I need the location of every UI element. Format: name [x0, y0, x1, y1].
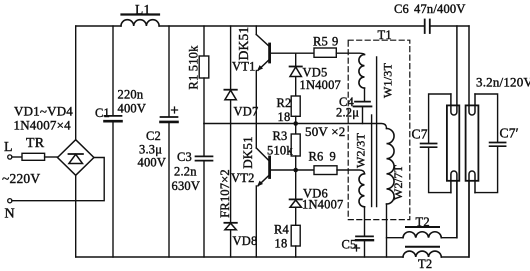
- wire midpoint rail: [204, 124, 387, 129]
- resistor R6: [314, 166, 365, 175]
- svg-text:1N4007: 1N4007: [300, 78, 341, 92]
- terminal N: [8, 199, 12, 203]
- svg-text:C1: C1: [95, 106, 110, 120]
- svg-text:9: 9: [332, 35, 338, 49]
- svg-text:R3: R3: [273, 129, 288, 143]
- wire top rail middle segment: [159, 25, 424, 27]
- svg-text:2.2n: 2.2n: [174, 165, 197, 179]
- filament lamp2 bottom: [469, 171, 475, 257]
- wire N to bridge: [12, 158, 104, 201]
- wire left rail lower: [75, 176, 77, 257]
- svg-text:18: 18: [278, 110, 291, 124]
- svg-text:3.2n/120V: 3.2n/120V: [476, 75, 530, 90]
- capacitor C1: [105, 26, 122, 257]
- svg-text:3.3μ: 3.3μ: [139, 143, 162, 157]
- svg-text:TR: TR: [26, 136, 45, 151]
- diode VD5: [290, 53, 302, 96]
- svg-text:R4: R4: [274, 223, 290, 237]
- transistor VT1: [256, 26, 314, 124]
- resistor R5: [314, 48, 365, 57]
- svg-text:C3: C3: [177, 150, 192, 164]
- junction midpoint-R2R3: [293, 121, 298, 126]
- wire T2 upper to lamp1: [441, 181, 457, 238]
- svg-text:N: N: [5, 207, 15, 222]
- svg-text:400V: 400V: [118, 102, 147, 116]
- resistor R2: [291, 96, 300, 124]
- resistor R1: [199, 26, 209, 124]
- wire W2/7T to T2 upper: [387, 237, 404, 239]
- winding W2/3T: [359, 174, 365, 207]
- svg-text:T1: T1: [378, 28, 392, 42]
- inductor L1: [121, 15, 159, 27]
- svg-text:L: L: [4, 140, 13, 155]
- svg-text:47n/400V: 47n/400V: [414, 2, 466, 16]
- svg-text:1N4007×4: 1N4007×4: [14, 118, 72, 133]
- lamp tube 1: [447, 105, 459, 180]
- wire TR to bridge: [45, 156, 58, 158]
- svg-text:9: 9: [330, 150, 336, 164]
- svg-text:L1: L1: [135, 2, 150, 17]
- capacitor C7: [421, 94, 451, 193]
- svg-text:T2: T2: [418, 257, 432, 271]
- svg-text:W1/3T: W1/3T: [381, 63, 395, 98]
- junction base-VT2: [293, 168, 298, 173]
- svg-text:R5: R5: [313, 35, 328, 49]
- svg-text:18: 18: [275, 237, 288, 251]
- diode VD8: [224, 124, 236, 258]
- svg-text:VT2: VT2: [231, 171, 255, 185]
- wire L to TR: [12, 156, 22, 158]
- svg-text:1N4007: 1N4007: [302, 198, 343, 212]
- winding W1/3T: [359, 55, 365, 102]
- winding W2/7T: [387, 129, 395, 258]
- wire top rail right segment: [430, 25, 469, 27]
- terminal L: [8, 155, 12, 159]
- wire top rail left segment: [76, 25, 121, 27]
- svg-text:VD7: VD7: [234, 105, 259, 119]
- svg-text:2.2μ: 2.2μ: [336, 106, 359, 120]
- wire left rail upper: [75, 26, 77, 140]
- svg-text:C2: C2: [146, 129, 161, 143]
- filament lamp1 top: [451, 26, 457, 115]
- wire bottom rail: [76, 256, 403, 258]
- transistor VT2: [256, 124, 314, 258]
- svg-text:VD1~VD4: VD1~VD4: [14, 104, 73, 119]
- resistor R3: [291, 124, 300, 171]
- svg-text:VT1: VT1: [232, 60, 256, 74]
- svg-text:220n: 220n: [118, 88, 144, 102]
- svg-text:630V: 630V: [172, 179, 201, 193]
- diode VD7: [224, 26, 236, 124]
- svg-text:C7: C7: [412, 127, 428, 142]
- svg-text:~220V: ~220V: [2, 171, 40, 186]
- transformer T2 lower: [403, 247, 441, 257]
- svg-text:R2: R2: [277, 96, 292, 110]
- svg-text:400V: 400V: [138, 156, 167, 170]
- capacitor C4: [354, 102, 372, 124]
- lamp tube 2: [466, 105, 479, 180]
- transformer T1 core: [372, 57, 377, 207]
- svg-text:C5: C5: [342, 238, 357, 252]
- svg-text:C6: C6: [394, 2, 409, 16]
- svg-text:510k: 510k: [267, 144, 293, 158]
- capacitor C3: [196, 124, 213, 258]
- svg-text:T2: T2: [416, 215, 430, 229]
- svg-text:R6: R6: [309, 150, 324, 164]
- svg-text:DK51: DK51: [240, 136, 255, 169]
- diode VD6: [290, 170, 302, 225]
- transformer T1 box: [348, 40, 410, 219]
- capacitor C2: [161, 26, 178, 257]
- bridge rectifier VD1-VD4: [58, 140, 94, 176]
- svg-text:W2/7T: W2/7T: [391, 165, 405, 200]
- svg-text:C7′: C7′: [500, 126, 519, 141]
- svg-text:R1 510k: R1 510k: [187, 45, 201, 90]
- svg-text:FR107×2: FR107×2: [218, 169, 232, 218]
- capacitor C7': [475, 94, 506, 193]
- capacitor C6: [425, 20, 430, 34]
- transformer T2 upper: [403, 227, 441, 238]
- fuse TR: [22, 153, 45, 160]
- filament lamp2 top: [469, 26, 475, 115]
- wire T2 lower to lamp2: [441, 181, 469, 257]
- svg-text:W2/3T: W2/3T: [354, 133, 368, 168]
- svg-text:VD8: VD8: [233, 234, 258, 248]
- filament lamp1 bottom: [451, 171, 457, 238]
- resistor R4: [291, 225, 300, 257]
- capacitor C5: [354, 207, 374, 257]
- svg-text:DK51: DK51: [236, 27, 251, 61]
- svg-text:50V ×2: 50V ×2: [305, 124, 345, 139]
